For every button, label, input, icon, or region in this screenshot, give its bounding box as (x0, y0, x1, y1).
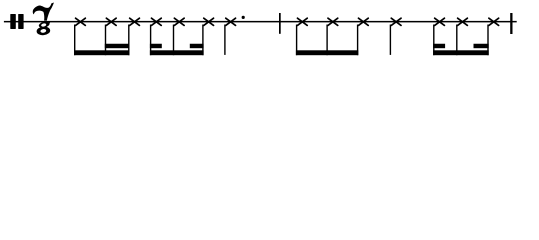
note 13 (eighth) X notehead (458, 18, 468, 25)
beam group 2 primary beam (150, 50, 204, 55)
augmentation dot (242, 16, 245, 19)
note 4 (sixteenth) X notehead (151, 18, 161, 25)
note 6 stem (202, 25, 203, 56)
note 14 stem (487, 25, 488, 56)
note 8 stem (296, 25, 297, 56)
note 10 stem (357, 25, 358, 56)
note 1 stem (74, 25, 75, 56)
note 9 (eighth) X notehead (328, 18, 338, 25)
beam group 4 primary beam (433, 50, 489, 55)
beam group 2 secondary beam fragment right (190, 44, 204, 48)
note 5 stem (173, 25, 174, 56)
beam group 1 primary beam (74, 50, 130, 55)
beam group 1 secondary beam (105, 44, 130, 48)
time signature denominator 8 (36, 21, 50, 36)
note 12 stem (433, 25, 434, 56)
beam group 4 secondary beam fragment right (474, 44, 489, 48)
note 13 stem (456, 25, 457, 56)
note 3 (sixteenth) X notehead (130, 18, 140, 25)
percussion clef (10, 14, 23, 29)
barline 1 (279, 13, 281, 34)
note 7 stem (224, 25, 225, 55)
note 6 (sixteenth) X notehead (204, 18, 214, 25)
note 4 stem (150, 25, 151, 56)
note 14 (sixteenth) X notehead (489, 18, 499, 25)
note 1 (eighth) X notehead (76, 18, 86, 25)
note 11 stem (390, 25, 391, 55)
note 12 (sixteenth) X notehead (435, 18, 445, 25)
note 5 (eighth) X notehead (174, 18, 184, 25)
staff line (4, 21, 517, 23)
note 9 stem (326, 25, 327, 56)
note 2 (sixteenth) X notehead (106, 18, 116, 25)
note 8 (eighth) X notehead (297, 18, 307, 25)
note 10 (eighth) X notehead (358, 18, 368, 25)
note 11 (quarter) X notehead (391, 18, 401, 25)
time signature numerator 7 (33, 3, 54, 21)
beam group 2 secondary beam fragment left (150, 44, 162, 48)
note 3 stem (128, 25, 129, 56)
note 7 (dotted quarter) X notehead (226, 18, 236, 25)
note 2 stem (105, 25, 106, 56)
beam group 4 secondary beam fragment left (433, 44, 445, 48)
final barline (510, 13, 512, 34)
beam group 3 primary beam (296, 50, 358, 55)
